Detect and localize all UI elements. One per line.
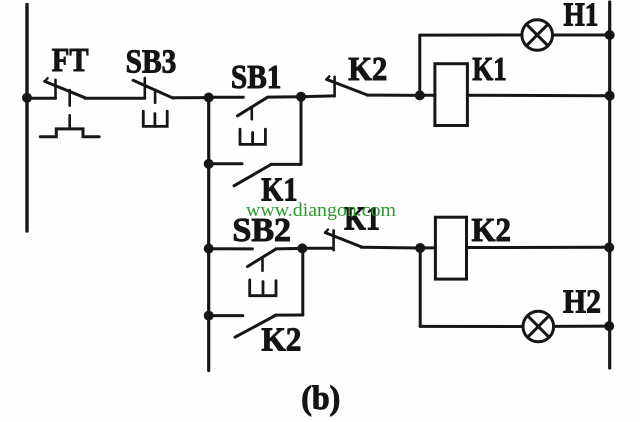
relay contact K2 (self-hold, NO) [235,316,275,338]
wire coil K2 to right rail [467,246,610,249]
node E (right rail top) [605,30,615,40]
SB3 button cap [143,111,167,126]
svg-text:K2: K2 [261,322,301,359]
SB1 actuator stem [251,107,254,119]
node J [415,243,425,253]
svg-text:H2: H2 [563,284,601,321]
wire node G to SB2 [209,247,253,250]
FT thermal element [40,129,99,137]
wire K1 contact to node J [361,246,420,250]
relay contact K1 (self-hold, NO) [234,165,271,186]
wire rail to FT [27,97,56,100]
thermal relay contact FT [45,78,85,98]
FT actuator dashes [68,90,71,129]
svg-text:FT: FT [52,42,89,79]
node B [296,92,306,102]
lamp H2 [523,311,554,342]
relay coil K2 [435,217,466,279]
wire node D to coil K1 [420,94,435,97]
node G on middle bus (rung 2) [204,244,214,254]
svg-text:www.diangon.com: www.diangon.com [246,200,396,221]
svg-text:H1: H1 [564,0,599,34]
wire node B to K2 interlock contact [301,94,333,98]
wire coil K1 to right rail [467,94,609,98]
middle vertical bus [207,98,210,371]
node K [604,242,614,252]
wire SB3 to node A [173,96,209,99]
pushbutton SB1 (NO) [238,97,268,116]
lamp H1 [522,20,553,51]
node L [604,321,614,331]
wire node A to SB1 [209,96,244,99]
wire node I to K2 contact [209,314,243,317]
svg-text:(b): (b) [301,380,340,417]
wire K2 contact to node D [367,94,420,97]
relay contact K1 (interlock, NC) [325,230,361,251]
node I on middle bus [204,311,214,321]
wire node H to K1 interlock contact [302,247,333,250]
SB3 actuator stem [154,90,157,103]
node C on middle bus [204,159,214,169]
SB2 button cap [250,280,276,296]
wire node D up to lamp H1 [418,35,421,95]
relay contact K2 (interlock, NC) [326,76,367,96]
node A [204,93,214,103]
svg-text:SB1: SB1 [231,59,282,96]
node H [297,243,307,253]
wire node J down to lamp H2 [419,248,422,326]
svg-text:SB3: SB3 [126,43,177,80]
wire FT to SB3 [85,97,145,100]
node F [605,91,615,101]
wire to lamp H1 [420,34,522,37]
node D [415,90,425,100]
SB1 button cap [240,129,265,144]
svg-text:K2: K2 [348,51,387,88]
svg-text:K1: K1 [472,51,507,88]
left supply rail [25,5,28,232]
wire SB2 to node H [276,247,303,251]
node: left rail / FT junction [22,93,32,103]
SB2 actuator stem [261,259,264,271]
wire node H down to K2 contact [301,248,304,315]
wire lamp H2 to right rail [554,325,610,328]
wire node B down to K1 contact [300,97,303,165]
wire K2 contact to node H leg [275,314,303,317]
pushbutton SB2 (NO) [247,249,275,267]
wire node J to coil K2 [420,246,435,249]
wire SB1 to node B [268,95,301,98]
wire node C to K1 contact [209,162,242,165]
wire lamp H1 to right rail [553,34,610,37]
svg-text:K2: K2 [472,212,512,249]
wire K1 contact to node B leg [271,163,301,166]
relay coil K1 [435,64,468,126]
pushbutton SB3 (NC) [133,78,173,98]
right supply rail [608,2,611,368]
wire to lamp H2 [420,325,523,328]
